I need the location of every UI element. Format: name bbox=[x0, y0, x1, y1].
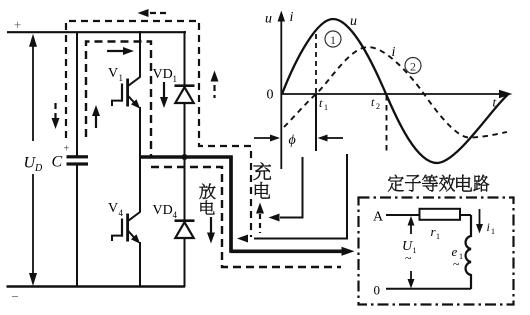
wire load connection vertical (thick) bbox=[229, 156, 233, 253]
svg-text:0: 0 bbox=[267, 88, 274, 103]
svg-text:~: ~ bbox=[453, 257, 460, 271]
svg-text:V: V bbox=[108, 201, 118, 216]
inductor e1 (coil) bbox=[466, 215, 471, 289]
leader charging interval to chongdian arrow bbox=[280, 157, 303, 218]
arrow discharge direction down bbox=[210, 217, 212, 234]
svg-text:~: ~ bbox=[405, 251, 412, 265]
voltage U1 arrows bbox=[410, 221, 412, 234]
marker circled 1 (u curve) bbox=[325, 31, 341, 47]
arrow discharge-loop current right (top) bbox=[107, 50, 126, 52]
svg-text:A: A bbox=[373, 210, 384, 225]
arrow current i1 bbox=[479, 209, 481, 226]
curve u solid sine bbox=[282, 19, 508, 163]
arrow charge direction up (dashed) bbox=[259, 214, 261, 233]
svg-text:i: i bbox=[392, 45, 396, 60]
resistor r1 bbox=[420, 209, 461, 220]
svg-text:1: 1 bbox=[324, 103, 328, 112]
svg-text:1: 1 bbox=[459, 252, 463, 261]
marker circled 2 (i curve) bbox=[405, 58, 421, 74]
svg-text:1: 1 bbox=[330, 33, 336, 47]
arrow charge-loop current left (top) bbox=[150, 12, 170, 14]
arrow discharge-loop current up (near C) bbox=[95, 114, 97, 128]
arrow charge-loop current up (near VD1) bbox=[213, 85, 215, 98]
capacitor C bbox=[76, 33, 78, 156]
arrow current down (between V1 and VD1) bbox=[163, 82, 165, 97]
svg-text:−: − bbox=[11, 289, 18, 304]
wire top DC rail bbox=[7, 31, 186, 33]
transistor V4 (IGBT) bbox=[139, 157, 141, 213]
svg-text:0: 0 bbox=[374, 283, 381, 298]
wire load connection horizontal with arrow into stator box bbox=[231, 250, 344, 254]
dimension phi right arrow bbox=[327, 137, 343, 139]
wire midpoint output (thick) bbox=[139, 155, 233, 158]
svg-text:1: 1 bbox=[491, 227, 495, 236]
stator box dash-dot border bbox=[359, 198, 514, 305]
svg-text:V: V bbox=[108, 66, 118, 81]
line t2 marker dashed below axis bbox=[386, 95, 388, 152]
svg-text:D: D bbox=[34, 163, 43, 174]
svg-text:+: + bbox=[14, 17, 21, 32]
svg-text:1: 1 bbox=[173, 74, 178, 84]
diode VD4 bbox=[184, 157, 186, 221]
svg-text:VD: VD bbox=[153, 67, 173, 82]
svg-text:2: 2 bbox=[376, 102, 380, 111]
axis x (t) bbox=[281, 93, 503, 95]
svg-text:i: i bbox=[290, 10, 294, 25]
svg-text:1: 1 bbox=[119, 73, 124, 83]
wire resistor to coil bbox=[460, 214, 471, 216]
svg-text:4: 4 bbox=[173, 210, 178, 220]
arrow charge-loop current down (near C) bbox=[54, 103, 56, 118]
voltage arrow Ud (double headed) bbox=[32, 44, 34, 141]
wire A to resistor bbox=[386, 214, 420, 216]
line t1 marker dashed above axis bbox=[315, 34, 317, 94]
svg-text:1: 1 bbox=[413, 246, 417, 255]
svg-text:u: u bbox=[350, 14, 357, 29]
wire bottom DC rail bbox=[7, 285, 186, 288]
node midpoint junction dot bbox=[182, 154, 188, 160]
svg-text:C: C bbox=[52, 154, 63, 171]
svg-text:VD: VD bbox=[153, 203, 173, 218]
label fangdian (discharge) bbox=[199, 184, 215, 200]
svg-text:ϕ: ϕ bbox=[289, 133, 296, 148]
diode VD1 bbox=[184, 31, 186, 86]
axis y (u,i) bbox=[280, 15, 282, 169]
label chongdian (charge) bbox=[254, 162, 272, 180]
svg-text:4: 4 bbox=[119, 208, 124, 218]
transistor V1 (IGBT) bbox=[139, 31, 141, 78]
svg-text:u: u bbox=[265, 12, 272, 27]
label dingzi dengxiao dianlu (stator equivalent circuit) bbox=[388, 175, 404, 192]
wire stator bottom bbox=[386, 288, 471, 290]
svg-text:i: i bbox=[487, 220, 490, 234]
curve i dashed sine bbox=[284, 47, 507, 138]
leader discharge interval to load wire bbox=[254, 154, 347, 239]
svg-text:2: 2 bbox=[410, 60, 416, 74]
line t1 marker solid below axis bbox=[315, 94, 317, 151]
svg-text:1: 1 bbox=[436, 232, 440, 241]
dimension phi left arrow bbox=[254, 137, 272, 139]
wire dashed charging-current loop (outer) bbox=[66, 21, 251, 237]
wire dashed discharging-current loop (inner) bbox=[86, 42, 151, 158]
svg-text:+: + bbox=[64, 144, 70, 155]
